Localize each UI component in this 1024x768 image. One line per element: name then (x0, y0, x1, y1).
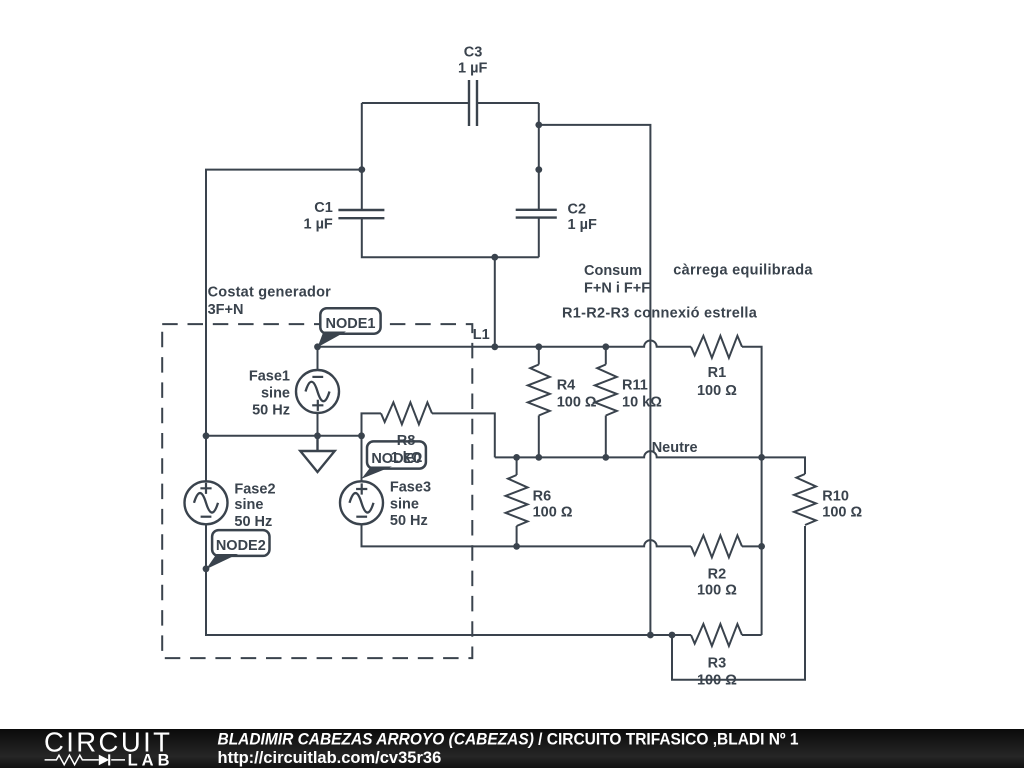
capacitor C1 (338, 210, 384, 218)
dashed box Costat generador (162, 324, 472, 658)
svg-text:100 Ω: 100 Ω (697, 383, 737, 399)
capacitor C2 (516, 210, 557, 218)
svg-text:LAB: LAB (128, 751, 174, 768)
svg-text:C3: C3 (464, 45, 483, 61)
svg-text:sine: sine (261, 386, 290, 402)
svg-text:50 Hz: 50 Hz (252, 402, 290, 418)
svg-text:Fase2: Fase2 (234, 481, 275, 497)
wire Fase1 bottom (317, 413, 319, 436)
bottom bar background (0, 729, 1024, 768)
svg-text:NODE2: NODE2 (216, 538, 266, 554)
node Neutre right (758, 454, 765, 461)
svg-text:R1: R1 (708, 365, 727, 381)
logo diode (99, 755, 109, 766)
svg-text:1 µF: 1 µF (303, 217, 332, 233)
svg-text:Costat generador: Costat generador (208, 284, 332, 300)
svg-text:L1: L1 (473, 327, 490, 343)
wire R11 bottom (605, 416, 607, 458)
node R11 top (602, 343, 609, 350)
node R10 stub top (669, 632, 676, 639)
wire Fase3 top (361, 436, 363, 482)
wire generator row (206, 435, 362, 437)
wire R2 right (742, 545, 762, 547)
label Fase2 (234, 481, 275, 530)
node Fase1 bottom junction (314, 432, 321, 439)
label R2 (697, 567, 737, 599)
wire L1 vertical (494, 257, 496, 347)
node C1 top junction (358, 166, 365, 173)
node R4 top (535, 343, 542, 350)
wire box left vertical lower and bottom (362, 218, 539, 257)
node box bottom junction (491, 254, 498, 261)
svg-text:50 Hz: 50 Hz (390, 513, 428, 529)
label Consum F+N i F+F (584, 263, 650, 296)
wire Fase1 top (317, 347, 319, 370)
label R6 (533, 488, 573, 520)
label R4 (557, 378, 597, 411)
svg-text:C1: C1 (314, 200, 333, 216)
label R1 (697, 365, 737, 399)
logo resistor diode symbol (45, 755, 125, 765)
voltage source Fase2 (185, 481, 228, 524)
node R4 bottom (535, 454, 542, 461)
svg-text:3F+N: 3F+N (208, 302, 244, 318)
svg-text:10 kΩ: 10 kΩ (622, 394, 662, 410)
label R10 (822, 488, 862, 520)
svg-text:http://circuitlab.com/cv35r36: http://circuitlab.com/cv35r36 (218, 749, 442, 767)
resistor R8 (381, 402, 432, 424)
label R3 (697, 655, 737, 688)
wire Neutre rail with hop (495, 451, 805, 474)
wire R6 bottom (516, 526, 518, 546)
svg-text:F+N i F+F: F+N i F+F (584, 281, 650, 297)
label Fase1 (249, 369, 290, 419)
resistor R2 (691, 535, 742, 557)
svg-text:BLADIMIR CABEZAS ARROYO (CABEZ: BLADIMIR CABEZAS ARROYO (CABEZAS) / CIRC… (218, 731, 799, 749)
node R6 bottom (513, 543, 520, 550)
wire R11 top (605, 347, 607, 365)
label Fase3 (390, 480, 431, 530)
node long vertical bottom (647, 632, 654, 639)
node R8 Fase3 junction (358, 432, 365, 439)
svg-text:sine: sine (390, 496, 419, 512)
wire Fase3 bottom row with hop (362, 524, 692, 546)
svg-text:NODE0: NODE0 (371, 451, 421, 467)
wire box left vertical upper (361, 103, 363, 210)
node NODE2 junction (203, 565, 210, 572)
svg-text:50 Hz: 50 Hz (234, 514, 272, 530)
wire R3 right (742, 634, 762, 636)
label C2 (568, 201, 597, 233)
node flag NODE2 (206, 530, 270, 569)
resistor R11 (595, 365, 617, 416)
node NODE1 junction (314, 343, 321, 350)
svg-text:R1-R2-R3 connexió estrella: R1-R2-R3 connexió estrella (562, 306, 758, 322)
svg-text:R11: R11 (622, 378, 648, 394)
wire box right vertical lower (538, 218, 540, 258)
svg-text:sine: sine (234, 497, 263, 513)
label C1 (303, 200, 332, 233)
resistor R1 (691, 336, 742, 358)
label C3 (458, 45, 487, 77)
ground (300, 436, 334, 472)
wire R8 left (362, 413, 382, 435)
svg-text:càrrega equilibrada: càrrega equilibrada (673, 262, 813, 278)
resistor R6 (506, 475, 528, 526)
resistor R3 (691, 624, 742, 646)
resistor R10 (794, 474, 816, 525)
wire R1 right and right vertical (742, 347, 762, 635)
node flag NODE1 (318, 308, 381, 347)
svg-text:1 µF: 1 µF (568, 217, 597, 233)
node L1 bottom (491, 343, 498, 350)
wire C3 to box top-right corner (477, 102, 539, 104)
wire R6 top (516, 457, 518, 475)
node R6 top (513, 454, 520, 461)
svg-text:R3: R3 (708, 655, 727, 671)
label Costat generador (208, 284, 332, 318)
svg-text:R10: R10 (822, 488, 849, 504)
wire R10 bottom loop (672, 526, 805, 680)
svg-text:Neutre: Neutre (652, 440, 698, 456)
svg-text:100 Ω: 100 Ω (697, 583, 737, 599)
svg-text:100 Ω: 100 Ω (822, 504, 862, 520)
wire Fase2 bottom to R3 row (206, 524, 691, 635)
resistor R4 (528, 365, 550, 416)
svg-text:R8: R8 (397, 433, 416, 449)
wire box top-left to C3 (362, 102, 469, 104)
svg-text:C2: C2 (568, 201, 587, 217)
svg-text:Fase3: Fase3 (390, 480, 431, 496)
capacitor C3 (469, 80, 477, 126)
node right vertical mid (535, 166, 542, 173)
svg-text:R6: R6 (533, 488, 552, 504)
svg-text:Consum: Consum (584, 263, 642, 279)
wire R4 top (538, 347, 540, 365)
wire right branch to long vertical (539, 125, 651, 635)
wire R4 bottom (538, 416, 540, 458)
svg-text:R2: R2 (708, 567, 727, 583)
svg-text:1 µF: 1 µF (458, 61, 487, 77)
wire left branch to Fase2 top (206, 170, 362, 482)
node R11 bottom (602, 454, 609, 461)
node R2 right (758, 543, 765, 550)
svg-text:Fase1: Fase1 (249, 369, 290, 385)
label R8 (391, 433, 423, 466)
svg-text:R4: R4 (557, 378, 576, 394)
wire top rail NODE1 to R1 with hop (318, 340, 692, 346)
svg-text:100 Ω: 100 Ω (533, 505, 573, 521)
node Fase2 top junction (203, 432, 210, 439)
svg-text:100 Ω: 100 Ω (557, 394, 597, 410)
node right branch junction (535, 122, 542, 129)
svg-text:100 Ω: 100 Ω (697, 673, 737, 689)
label R11 (622, 378, 662, 411)
wire box right vertical upper (538, 103, 540, 210)
wire R8 right into Neutre (432, 413, 495, 457)
svg-text:NODE1: NODE1 (326, 316, 376, 332)
node flag NODE0 (362, 441, 426, 478)
voltage source Fase3 (340, 481, 383, 524)
voltage source Fase1 (296, 370, 339, 413)
